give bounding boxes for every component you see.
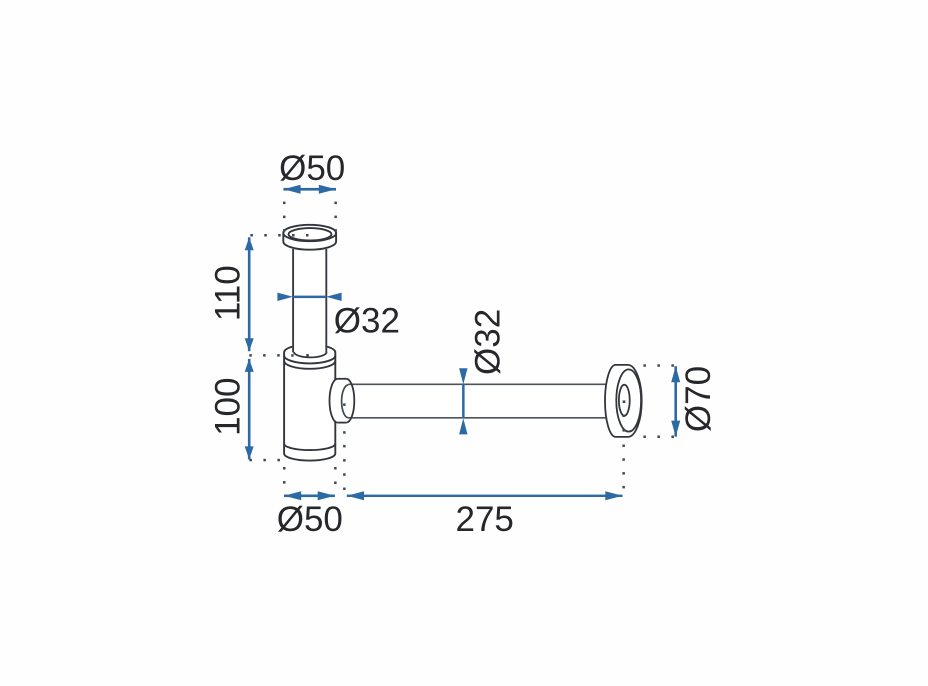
outlet nut on body [330, 379, 355, 423]
svg-text:110: 110 [209, 265, 248, 321]
extension dotted lines [249, 202, 674, 490]
svg-text:Ø50: Ø50 [279, 149, 345, 188]
length 275 dimension line [347, 495, 623, 497]
svg-text:Ø70: Ø70 [679, 366, 718, 432]
rosette center extension dots [622, 415, 625, 418]
svg-text:Ø32: Ø32 [334, 302, 400, 341]
wall rosette flange [605, 365, 642, 437]
bottom diameter 50 arrow [284, 495, 335, 498]
body top plane dotted line [249, 354, 252, 357]
svg-text:Ø32: Ø32 [469, 309, 508, 375]
pipe diameter 32 arrow [462, 384, 465, 418]
flange plane dotted line [250, 234, 253, 237]
dimension labels [209, 149, 718, 539]
top diameter extension dots right [334, 202, 337, 205]
rosette top extension dots [643, 364, 646, 367]
tube diameter 32 arrow [293, 296, 326, 299]
svg-text:Ø50: Ø50 [277, 500, 343, 539]
height 100 dimension line [248, 359, 251, 460]
body left extension dots bottom [283, 467, 286, 470]
body bottom plane dotted line [249, 459, 252, 462]
flange center dot [623, 400, 626, 403]
height 110 dimension line [248, 237, 251, 351]
top drain flange [283, 225, 336, 250]
svg-text:100: 100 [209, 377, 248, 435]
body cup of siphon [284, 345, 335, 461]
horizontal outlet pipe [348, 384, 605, 418]
rosette bottom extension dots [643, 436, 646, 439]
rosette diameter 70 arrow [674, 366, 677, 436]
body right extension dots bottom [334, 467, 337, 470]
vertical inlet tube [293, 249, 327, 357]
pipe start extension dots [343, 403, 346, 406]
dimension arrows (blue) [245, 185, 681, 501]
top diameter 50 arrow [283, 188, 336, 191]
svg-text:275: 275 [455, 500, 513, 539]
top diameter extension dots left [283, 202, 286, 205]
